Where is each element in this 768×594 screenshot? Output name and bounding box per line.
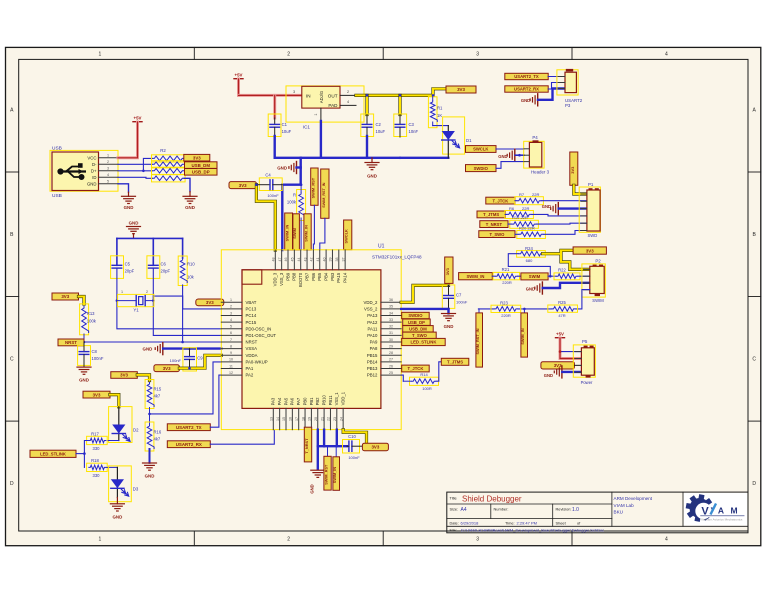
- svg-text:PA7: PA7: [296, 397, 301, 405]
- svg-text:25: 25: [389, 371, 393, 375]
- wire R24 left branch: [508, 254, 550, 277]
- svg-text:R: R: [293, 193, 296, 198]
- U1 pin 6 PD1-OSC_OUT: [221, 334, 242, 336]
- svg-text:VSS_3: VSS_3: [279, 272, 284, 286]
- wire VSS_2 ground: [401, 309, 448, 313]
- MCU U1 STM32F101xx_LQFP48: [221, 250, 401, 430]
- svg-text:PA5: PA5: [283, 397, 288, 405]
- svg-text:3V3: 3V3: [371, 445, 379, 450]
- U1 pin 34 PA13: [381, 315, 401, 317]
- svg-text:19: 19: [308, 417, 312, 421]
- capacitor C10: [343, 440, 360, 454]
- wire T_JTCK to P1 pin2: [515, 200, 587, 202]
- svg-text:D: D: [752, 481, 756, 487]
- wire USART2_RX to P3: [548, 83, 565, 90]
- svg-text:R22: R22: [558, 267, 566, 272]
- U1 pin 37 PA14: [344, 250, 346, 270]
- svg-text:3: 3: [107, 167, 109, 171]
- svg-text:GND: GND: [444, 324, 454, 329]
- U1 pin 11 PA1: [221, 368, 242, 370]
- svg-text:PA3: PA3: [271, 397, 276, 405]
- U1 pin 5 PD0-OSC_IN: [221, 328, 242, 330]
- wire USART2_TX to PA2: [210, 375, 221, 427]
- svg-text:PB15: PB15: [367, 353, 378, 358]
- resistor R16 4k7: [149, 414, 151, 424]
- svg-text:PD0-OSC_IN: PD0-OSC_IN: [246, 326, 272, 331]
- svg-text:5: 5: [230, 325, 232, 329]
- net label USART2_TX (P3): [505, 73, 548, 79]
- wire ground to P3: [538, 89, 565, 100]
- svg-text:10k: 10k: [187, 275, 195, 280]
- net label 3V3 (P2): [573, 247, 606, 254]
- capacitor C5: [111, 256, 124, 279]
- svg-text:OUT: OUT: [328, 93, 338, 98]
- svg-text:PD1-OSC_OUT: PD1-OSC_OUT: [246, 333, 277, 338]
- svg-text:BOOT0: BOOT0: [298, 272, 303, 287]
- svg-text:24: 24: [339, 417, 343, 421]
- wire USART2_RX to PA3: [210, 430, 274, 444]
- svg-text:C1: C1: [282, 122, 288, 127]
- wire C2 to ground rail: [366, 136, 368, 158]
- svg-text:T_JTMS: T_JTMS: [447, 360, 463, 365]
- svg-text:8: 8: [230, 344, 232, 348]
- resistor R20 22R: [517, 231, 546, 239]
- svg-text:10: 10: [229, 358, 233, 362]
- svg-text:42: 42: [310, 258, 314, 262]
- U1 pin 25 PB12: [381, 374, 401, 376]
- svg-text:3V3: 3V3: [93, 392, 101, 397]
- U1 pin 17 PA7: [298, 408, 300, 429]
- svg-text:GND: GND: [129, 221, 139, 226]
- svg-text:C8: C8: [92, 349, 98, 354]
- U1 pin 44 BOOT0: [300, 250, 302, 270]
- svg-text:PC14: PC14: [246, 313, 257, 318]
- svg-text:1K: 1K: [437, 113, 442, 118]
- resistor R11 100k (BOOT0 pulldown): [297, 190, 306, 221]
- net label SWIM_IN (vertical): [285, 213, 293, 250]
- svg-text:R19 22R: R19 22R: [512, 215, 528, 220]
- svg-text:R15: R15: [154, 386, 162, 391]
- svg-text:4: 4: [665, 52, 668, 58]
- wire ground rail to VSS_3: [282, 158, 300, 250]
- wire D+ pullup branch: [143, 158, 152, 170]
- svg-text:A: A: [718, 506, 724, 516]
- net label 3V3 (D+ pullup): [184, 154, 210, 161]
- svg-text:1: 1: [99, 537, 102, 543]
- svg-text:22R: 22R: [532, 192, 539, 197]
- svg-text:SWIM_IN: SWIM_IN: [466, 274, 484, 279]
- wire C2 C3 taps: [365, 95, 368, 114]
- wire USB ID to R2: [118, 177, 152, 178]
- svg-text:Date:: Date:: [450, 521, 459, 526]
- wire R2 row4 to ground: [184, 178, 190, 191]
- svg-text:PB4: PB4: [324, 272, 329, 281]
- net label 3V3 (R13): [52, 293, 79, 300]
- svg-text:PA0-WKUP: PA0-WKUP: [246, 359, 268, 364]
- net label T_JTCK (PB13): [402, 365, 430, 372]
- svg-text:Header 3: Header 3: [531, 170, 550, 175]
- capacitor C6: [147, 256, 160, 279]
- svg-text:File:: File:: [450, 528, 457, 533]
- net label SWIM_IN: [459, 273, 493, 280]
- svg-text:SWCLK: SWCLK: [344, 229, 349, 243]
- svg-text:USB_DP: USB_DP: [408, 320, 425, 325]
- svg-text:R21: R21: [502, 267, 510, 272]
- U1 pin 15 PA5: [285, 408, 287, 429]
- svg-text:13: 13: [270, 417, 274, 421]
- svg-text:T_SWO: T_SWO: [412, 333, 428, 338]
- svg-text:18: 18: [301, 417, 305, 421]
- wire USB GND: [118, 184, 129, 192]
- svg-text:Number:: Number:: [494, 507, 509, 512]
- svg-text:A4: A4: [461, 507, 467, 513]
- svg-text:SWDIO: SWDIO: [408, 313, 423, 318]
- svg-text:PA10: PA10: [367, 333, 378, 338]
- U1 pin 45 PB8: [293, 250, 295, 270]
- U1 pin 19 PB1: [310, 408, 312, 429]
- U1 pin 35 VSS_2: [381, 308, 401, 310]
- wire ground to P2 pin3: [543, 283, 590, 288]
- svg-text:GND: GND: [367, 174, 377, 179]
- ground (USB shell): [128, 192, 130, 196]
- svg-text:GND: GND: [310, 484, 315, 493]
- net label USART2_RX (P3): [505, 86, 548, 92]
- svg-text:40: 40: [322, 258, 326, 262]
- svg-text:220R: 220R: [501, 313, 511, 318]
- svg-text:2: 2: [287, 52, 290, 58]
- U1 pin 18 PB0: [304, 408, 306, 429]
- ground power symbol at C4 node: [296, 162, 298, 174]
- svg-text:680: 680: [526, 258, 533, 263]
- LED D1: [443, 117, 465, 154]
- svg-text:GND: GND: [124, 205, 134, 210]
- net label 3V3 (P5): [541, 362, 575, 369]
- svg-text:C9: C9: [197, 355, 203, 360]
- wire 3V3 to VDD_3 pin 48: [256, 185, 275, 250]
- svg-text:3V3: 3V3: [163, 366, 171, 371]
- svg-text:GND: GND: [113, 515, 123, 520]
- resistor R1 1K: [428, 97, 437, 128]
- svg-text:SWIM_IN: SWIM_IN: [521, 328, 525, 345]
- svg-text:GND: GND: [143, 347, 153, 352]
- svg-text:1: 1: [230, 298, 232, 302]
- U1 pin 38 PA15: [338, 250, 340, 270]
- svg-text:330: 330: [93, 446, 101, 451]
- svg-text:GND: GND: [145, 474, 155, 479]
- net label USB_DP: [185, 169, 218, 176]
- svg-text:2: 2: [230, 305, 232, 309]
- U1 pin 33 PA12: [381, 321, 401, 323]
- U1 pin 32 PA11: [381, 328, 401, 330]
- wire R22 to P2 pin2: [578, 275, 590, 277]
- svg-text:GND: GND: [544, 373, 553, 378]
- svg-text:P2: P2: [595, 259, 601, 264]
- svg-text:3V3: 3V3: [554, 363, 562, 368]
- svg-text:1: 1: [121, 290, 123, 294]
- svg-text:VSS_1: VSS_1: [334, 392, 339, 406]
- USB icon: [58, 163, 86, 179]
- net label 3V3 (vertical, VDD_2): [445, 257, 453, 283]
- net label USB_DM: [185, 162, 218, 169]
- ground (C7): [442, 313, 456, 315]
- svg-text:PA4: PA4: [277, 397, 282, 405]
- svg-text:PB6: PB6: [311, 272, 316, 281]
- svg-text:R7: R7: [519, 192, 525, 197]
- svg-text:4: 4: [107, 173, 109, 177]
- U1 pin 8 VSSA: [221, 348, 242, 350]
- capacitor C7: [442, 285, 455, 309]
- svg-text:VDD_1: VDD_1: [341, 391, 346, 405]
- svg-text:PB11: PB11: [328, 395, 333, 406]
- svg-text:SWIM_IN: SWIM_IN: [333, 467, 337, 484]
- svg-text:P1: P1: [588, 182, 594, 187]
- U1 pin 30 PA9: [381, 341, 401, 343]
- net label SWIM_IN 2 (vertical): [304, 214, 311, 250]
- wire NRST to MCU: [84, 341, 221, 343]
- U1 pin 40 PB4: [325, 250, 327, 270]
- svg-text:100nF: 100nF: [92, 356, 104, 361]
- svg-text:SWIM_IN: SWIM_IN: [285, 224, 290, 241]
- resistor R14 100R: [401, 375, 403, 381]
- svg-text:USB_DM: USB_DM: [191, 163, 210, 168]
- ground symbol below rail: [371, 158, 373, 163]
- svg-text:IC1: IC1: [303, 125, 311, 130]
- capacitor C4: [259, 178, 282, 191]
- svg-text:+5V: +5V: [556, 332, 564, 337]
- U1 pin 7 NRST: [221, 341, 242, 343]
- U1 pin 1 VBAT: [221, 301, 242, 303]
- U1 pin 36 VDD_2: [381, 301, 401, 303]
- svg-text:48: 48: [272, 258, 276, 262]
- net label SWIM_RST (vertical, bottom): [327, 446, 329, 456]
- wire 3V3 to P1 pin1: [574, 185, 587, 194]
- svg-text:ID: ID: [92, 175, 96, 180]
- wire VDD_2 to 3V3: [401, 285, 448, 302]
- svg-text:C2: C2: [376, 122, 382, 127]
- svg-text:11: 11: [229, 364, 233, 368]
- U1 pin 12 PA2: [221, 374, 242, 376]
- U1 pin 43 PB7: [306, 250, 308, 270]
- svg-text:15: 15: [282, 417, 286, 421]
- wire VSSA ground: [163, 347, 221, 349]
- crystal Y1: [118, 294, 154, 306]
- wire R24 to 3V3 and P2 pin1: [543, 250, 590, 269]
- wire R17 to junction: [84, 441, 88, 454]
- U1 pin 39 PB3: [331, 250, 333, 270]
- svg-text:Revision:: Revision:: [556, 507, 572, 512]
- net label SWIM_RST_IN (vertical): [321, 169, 329, 218]
- svg-text:SWCLK: SWCLK: [473, 147, 488, 152]
- svg-text:GND: GND: [526, 287, 535, 292]
- net label 3V3 (VDDA): [154, 365, 180, 372]
- net label 3V3 (vertical, P1): [570, 152, 578, 185]
- net label T_NRST (vertical): [304, 427, 311, 462]
- svg-text:45: 45: [291, 258, 295, 262]
- svg-text:Shield Debugger: Shield Debugger: [462, 494, 522, 503]
- svg-text:SWIM_RST_IN: SWIM_RST_IN: [476, 328, 480, 354]
- svg-text:3: 3: [293, 90, 295, 94]
- wire SWIM_RST to PB6: [313, 205, 314, 250]
- svg-text:R25: R25: [558, 300, 566, 305]
- svg-text:36: 36: [389, 298, 393, 302]
- U1 pin 29 PA8: [381, 348, 401, 350]
- svg-text:GND: GND: [79, 378, 89, 383]
- capacitor C3: [394, 114, 407, 137]
- svg-text:P4: P4: [532, 135, 538, 140]
- svg-text:SWIM: SWIM: [592, 298, 604, 303]
- net label SWDIO: [466, 165, 497, 172]
- U1 pin 3 PC14: [221, 315, 242, 317]
- svg-text:+5V: +5V: [134, 116, 142, 121]
- svg-text:R1: R1: [437, 106, 443, 111]
- svg-text:3V3: 3V3: [445, 267, 450, 275]
- svg-text:10uF: 10uF: [282, 129, 292, 134]
- svg-text:32: 32: [389, 325, 393, 329]
- U1 pin 22 PB11: [329, 408, 331, 429]
- wire USB VCC to +5V: [118, 122, 138, 158]
- U1 pin 28 PB15: [381, 354, 401, 356]
- wire R1 to D1: [433, 125, 449, 127]
- svg-text:2:29:47 PM: 2:29:47 PM: [517, 521, 537, 526]
- svg-text:SWIM_IN: SWIM_IN: [304, 225, 309, 242]
- svg-text:330: 330: [93, 473, 101, 478]
- svg-text:PB10: PB10: [322, 394, 327, 405]
- svg-text:SWIM_RST: SWIM_RST: [325, 464, 329, 485]
- U1 pin 24 VDD_1: [342, 408, 344, 429]
- svg-text:3V3: 3V3: [61, 294, 69, 299]
- wire SWCLK to P4: [496, 148, 524, 150]
- resistor R17 330: [107, 440, 119, 442]
- svg-text:Size:: Size:: [450, 507, 459, 512]
- svg-text:R16: R16: [154, 429, 162, 434]
- connector P2 SWIM: [582, 264, 605, 297]
- svg-text:M: M: [730, 506, 737, 516]
- svg-text:T_NRST: T_NRST: [304, 438, 309, 454]
- svg-text:100R: 100R: [422, 386, 432, 391]
- svg-text:C6: C6: [161, 262, 167, 267]
- svg-text:100nF: 100nF: [348, 455, 360, 460]
- capacitor C9: [183, 348, 197, 371]
- wire SWIM_RST_IN row: [478, 290, 589, 309]
- wire ground rail: [275, 157, 449, 159]
- svg-text:3V3: 3V3: [206, 300, 214, 305]
- svg-text:R2: R2: [160, 148, 166, 153]
- svg-text:U1: U1: [378, 244, 385, 250]
- svg-text:Vietnam Avionics Mechatronics: Vietnam Avionics Mechatronics: [701, 517, 743, 521]
- svg-text:STM32F101xx_LQFP48: STM32F101xx_LQFP48: [372, 255, 422, 260]
- svg-text:PB7: PB7: [304, 272, 309, 281]
- svg-text:ARM Development: ARM Development: [614, 496, 653, 501]
- LED D2: [109, 407, 132, 443]
- title block: [447, 492, 748, 533]
- svg-text:T_NRST: T_NRST: [486, 222, 503, 227]
- svg-text:3V3: 3V3: [586, 248, 594, 253]
- wire USB D- to R2: [118, 163, 152, 165]
- U1 pin 27 PB14: [381, 361, 401, 363]
- svg-text:100nF: 100nF: [267, 193, 279, 198]
- wire T_NRST to P1 pin5: [508, 222, 587, 225]
- net label USB_DM (PA11): [403, 326, 434, 332]
- wire 3V3 to VDDA: [179, 355, 221, 368]
- net label T_JTMS: [477, 211, 505, 218]
- svg-text:2: 2: [107, 160, 109, 164]
- svg-text:VDD_2: VDD_2: [364, 300, 378, 305]
- svg-text:10uF: 10uF: [376, 129, 386, 134]
- net label 3V3 (VDD_3 feed): [229, 182, 256, 189]
- wire +5V branch to C1: [273, 95, 276, 118]
- wire OSC_IN: [117, 268, 221, 329]
- svg-text:1: 1: [314, 113, 318, 115]
- svg-text:PB2: PB2: [315, 397, 320, 406]
- wire 3V3 output rail: [356, 89, 446, 96]
- wire T_JTMS to P1 pin4: [505, 214, 587, 216]
- svg-text:R18: R18: [91, 458, 99, 463]
- svg-text:PB1: PB1: [309, 397, 314, 406]
- svg-text:P5: P5: [582, 339, 588, 344]
- svg-text:C7: C7: [456, 292, 462, 297]
- wire VDD_1 to 3V3: [343, 430, 366, 444]
- resistor R6 22R: [505, 211, 534, 219]
- U1 pin 13 PA3: [272, 408, 274, 429]
- svg-text:PB3: PB3: [330, 272, 335, 281]
- svg-text:4: 4: [665, 537, 668, 543]
- svg-text:3: 3: [476, 537, 479, 543]
- connector P1 SWD: [579, 187, 600, 232]
- capacitor C1: [268, 114, 281, 137]
- svg-text:28: 28: [389, 351, 393, 355]
- voltage regulator IC1: [286, 86, 364, 122]
- svg-text:ADJ/G: ADJ/G: [319, 91, 324, 103]
- U1 pin 46 PB9: [287, 250, 289, 270]
- svg-text:4: 4: [347, 100, 349, 104]
- svg-text:VIAM Lab: VIAM Lab: [614, 503, 635, 508]
- U1 pin 4 PC15: [221, 321, 242, 323]
- wire +5V to P5 pin1: [560, 351, 581, 353]
- wire USART2_TX to P3: [548, 76, 565, 78]
- svg-text:3: 3: [230, 311, 232, 315]
- svg-text:D+: D+: [91, 168, 97, 173]
- net label 3V3 (VDD_1): [362, 443, 388, 451]
- svg-text:USB_DM: USB_DM: [409, 327, 427, 332]
- wire 3V3 to R15: [137, 375, 149, 381]
- U1 pin 10 PA0-WKUP: [221, 361, 242, 363]
- svg-text:D2: D2: [133, 428, 139, 433]
- svg-text:LED_STLINK: LED_STLINK: [411, 340, 437, 345]
- svg-text:26: 26: [389, 364, 393, 368]
- svg-text:2: 2: [146, 290, 148, 294]
- svg-text:1.0: 1.0: [572, 507, 579, 513]
- svg-text:C10: C10: [348, 434, 356, 439]
- svg-text:PC15: PC15: [246, 320, 257, 325]
- svg-text:C: C: [10, 357, 14, 363]
- svg-text:+5V: +5V: [235, 73, 243, 78]
- net label SWIM_IN (vertical, bottom): [335, 446, 337, 457]
- connector P5 Power: [573, 345, 595, 377]
- svg-text:PA9: PA9: [370, 340, 378, 345]
- svg-text:39: 39: [329, 258, 333, 262]
- svg-text:7: 7: [230, 338, 232, 342]
- svg-text:12: 12: [229, 371, 233, 375]
- svg-text:33: 33: [389, 318, 393, 322]
- svg-text:T_JTMS: T_JTMS: [483, 212, 499, 217]
- wire R10 to NRST net: [182, 285, 184, 342]
- svg-text:GND: GND: [185, 205, 195, 210]
- net label 3V3 (R15): [111, 372, 138, 379]
- VIAM logo: [684, 493, 747, 526]
- svg-text:PB14: PB14: [367, 359, 378, 364]
- wire ground to P5 pin4: [562, 371, 581, 373]
- svg-text:41: 41: [316, 258, 320, 262]
